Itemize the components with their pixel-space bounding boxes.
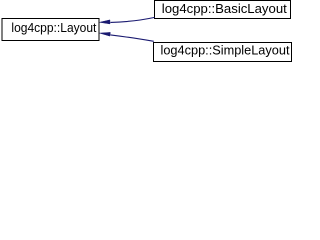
svg-text:log4cpp::Layout: log4cpp::Layout <box>11 20 96 35</box>
class box log4cpp::BasicLayout <box>155 1 291 19</box>
inheritance arrow SimpleLayout to Layout <box>100 32 154 41</box>
svg-text:log4cpp::SimpleLayout: log4cpp::SimpleLayout <box>161 42 290 57</box>
inheritance arrow BasicLayout to Layout <box>100 17 155 24</box>
class box log4cpp::Layout <box>2 19 99 41</box>
class box log4cpp::SimpleLayout <box>154 42 292 61</box>
svg-text:log4cpp::BasicLayout: log4cpp::BasicLayout <box>162 1 287 16</box>
